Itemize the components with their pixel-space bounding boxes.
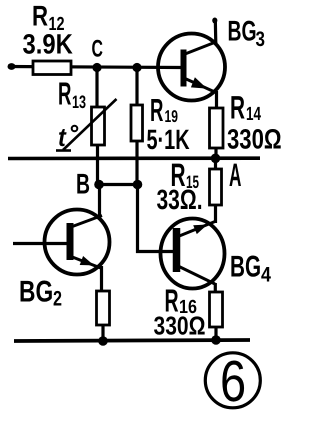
label BG4 [230,251,271,287]
wire: top rail left end blob [8,63,16,70]
svg-text:330Ω: 330Ω [227,124,282,155]
wire: node A to R15 [214,157,217,171]
label R16 [165,283,197,319]
svg-text:14: 14 [246,104,261,125]
label BG2 [19,276,62,311]
wire: R13 down to node B [96,143,99,185]
wire: node B down to BG2 collector [98,184,101,217]
resistor R15 [210,169,222,205]
svg-text:BG: BG [230,251,261,284]
junction dot B-link / right vertical [133,180,143,190]
resistor R14 [210,108,224,148]
value 330 ohm (R16) [154,311,206,341]
label R14 [230,90,261,126]
svg-text:6: 6 [220,349,246,414]
wire: R19 down past mid rail [135,139,138,186]
svg-text:4: 4 [261,264,271,287]
svg-text:R: R [230,90,245,126]
wire: BG2 emitter to lower resistor [100,266,103,293]
node B junction dot [94,180,104,190]
node A junction dot [211,154,221,164]
svg-text:t: t [58,122,67,152]
label R12 [32,1,65,36]
wire: bottom rail [14,340,250,341]
wire: BG3 collector stub to top edge [212,18,217,45]
figure number 6 in circle [205,349,260,414]
node C label [92,36,103,63]
label BG3 [228,16,265,52]
wire: BG4 collector to R16 [214,283,217,294]
label R19 [150,92,178,128]
svg-text:A: A [229,157,241,193]
wire: BG3 emitter to R14 [215,91,218,110]
svg-text:C: C [92,36,103,63]
wire: middle rail [8,156,260,160]
wire: R14 to node A [214,146,217,159]
wire: BG4 base horizontal [136,250,180,253]
junction dot bottom rail left [98,336,108,346]
wire: node C down to R13 [95,66,98,109]
value 33 ohm (R15) [157,184,203,215]
thermistor t label [58,122,77,152]
svg-text:3.9K: 3.9K [23,29,73,60]
value 5.1K [147,124,190,155]
svg-text:B: B [76,169,90,201]
svg-text:BG: BG [228,16,257,48]
thermistor diagonal stroke [56,99,117,151]
junction dot top rail / R19 [132,63,141,72]
transistor BG2 [45,210,110,275]
value 3.9K [23,29,73,60]
transistor BG4 [161,219,225,289]
wire: lower resistor to bottom rail [101,323,104,342]
node C junction dot [92,63,101,72]
node B label [76,169,90,201]
svg-text:330Ω: 330Ω [154,311,206,341]
junction dot bottom rail right [211,335,221,345]
svg-text:2: 2 [53,288,62,311]
resistor below BG2 emitter [97,291,110,325]
label R15 [171,157,200,193]
svg-text:R: R [150,92,163,128]
wire: R16 to bottom rail [214,325,217,341]
wire: node B link to right vertical [98,183,138,186]
node A label [229,157,241,193]
resistor R19 [131,105,143,141]
wire: top rail junction down to R19 [135,66,138,107]
resistor R13 (thermistor body) [92,107,105,145]
wire: R15 to BG4 emitter [214,203,217,223]
label R13 [58,76,86,113]
wire: top rail to BG3 base [8,67,181,68]
svg-text:5·1K: 5·1K [147,124,190,155]
resistor R16 [210,292,223,327]
transistor BG3 [158,34,225,101]
svg-text:13: 13 [72,92,86,112]
wire: BG2 base from left edge [13,242,73,245]
value 330 ohm (R14) [227,124,282,155]
svg-text:33Ω.: 33Ω. [157,184,203,215]
svg-text:3: 3 [256,28,265,51]
resistor R12 [33,61,71,75]
wire: right vertical down to BG4 base corner [136,184,139,253]
svg-text:R: R [58,76,71,112]
svg-text:BG: BG [19,276,53,309]
